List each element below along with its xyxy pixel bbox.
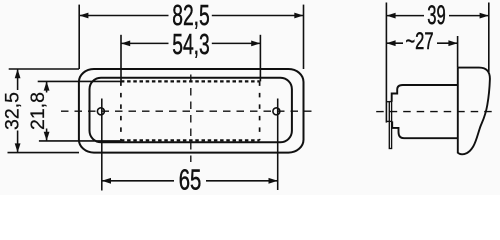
dim 82,5 left extension line bbox=[78, 5, 80, 69]
dim ~27 dimension line bbox=[386, 42, 403, 44]
front view: horizontal centerline bbox=[61, 110, 318, 112]
dim 54,3 left arrowhead bbox=[121, 41, 130, 47]
svg-text:~27: ~27 bbox=[406, 28, 434, 55]
dim ~27 right arrowhead bbox=[448, 40, 457, 46]
hidden rectangle left dashed edge bbox=[120, 81, 122, 140]
dim 21,8 up arrowhead bbox=[44, 81, 50, 90]
housing bottom step profile bbox=[392, 121, 458, 138]
dim 21,8 dimension line upper bbox=[46, 81, 48, 92]
front view: vertical centerline bbox=[190, 75, 192, 163]
housing top step profile bbox=[392, 85, 458, 102]
lens back edge bbox=[457, 68, 459, 154]
label ~27 bbox=[404, 31, 437, 54]
dim 21,8 top extension line bbox=[38, 80, 121, 82]
lens rim inner rounded rectangle bbox=[90, 78, 292, 143]
dim ~27 left arrowhead bbox=[386, 40, 395, 46]
bracket top step bbox=[386, 101, 389, 103]
right screw hole axis line bbox=[277, 99, 279, 191]
dim 82,5 dimension line bbox=[79, 15, 168, 17]
dim 82,5 right arrowhead bbox=[294, 13, 303, 19]
dim 65 left arrowhead bbox=[102, 178, 111, 184]
svg-text:39: 39 bbox=[427, 0, 445, 30]
left screw hole axis line bbox=[101, 99, 103, 191]
dim 54,3 dimension line bbox=[121, 42, 169, 44]
dim 54,3 right extension line bbox=[259, 35, 261, 82]
dim 39 right extension line bbox=[488, 3, 490, 73]
dim 39 left extension line bbox=[385, 3, 387, 123]
dim 39 right arrowhead bbox=[480, 13, 489, 19]
dim 32,5 dimension line upper bbox=[17, 69, 19, 90]
svg-text:65: 65 bbox=[179, 164, 202, 195]
label 54,3 bbox=[169, 32, 212, 57]
housing outer rounded rectangle bbox=[79, 69, 304, 153]
dim 65 right arrowhead bbox=[269, 178, 278, 184]
left screw hole bbox=[97, 108, 104, 115]
svg-text:82,5: 82,5 bbox=[172, 0, 210, 32]
label 39 bbox=[425, 3, 449, 27]
dim 21,8 down arrowhead bbox=[44, 132, 50, 141]
dim 21,8 dimension line lower bbox=[46, 129, 48, 141]
dim 82,5 left arrowhead bbox=[79, 13, 88, 19]
hidden rectangle right dashed edge bbox=[259, 81, 261, 140]
dim 82,5 right extension line bbox=[303, 5, 305, 69]
hidden rectangle top dotted edge bbox=[121, 80, 260, 82]
right screw hole bbox=[273, 108, 280, 115]
dim 21,8 bottom extension line bbox=[39, 140, 121, 142]
dim 54,3 right arrowhead bbox=[251, 41, 260, 47]
svg-text:32,5: 32,5 bbox=[1, 92, 23, 130]
dim 32,5 down arrowhead bbox=[15, 143, 21, 152]
dim ~27 right extension tick bbox=[457, 36, 459, 68]
dim 39 dimension line bbox=[386, 15, 424, 17]
side view: horizontal centerline bbox=[376, 111, 494, 113]
side view mounting bracket bar bbox=[389, 102, 391, 149]
lens outline bbox=[458, 68, 490, 155]
dim 54,3 left extension line bbox=[120, 35, 122, 82]
label 82,5 bbox=[169, 3, 212, 29]
dim 65 dimension line bbox=[102, 180, 174, 182]
dim 32,5 up arrowhead bbox=[15, 69, 21, 78]
dim 39 left arrowhead bbox=[386, 13, 395, 19]
svg-text:21,8: 21,8 bbox=[27, 92, 49, 130]
dim 32,5 dimension line lower bbox=[17, 131, 19, 153]
dim 32,5 bottom extension line bbox=[8, 152, 80, 154]
svg-text:54,3: 54,3 bbox=[172, 29, 210, 61]
hidden rectangle bottom dotted edge bbox=[121, 139, 260, 141]
dim 32,5 top extension line bbox=[9, 68, 79, 70]
bracket lower step bbox=[386, 120, 392, 122]
label 65 bbox=[175, 168, 206, 193]
